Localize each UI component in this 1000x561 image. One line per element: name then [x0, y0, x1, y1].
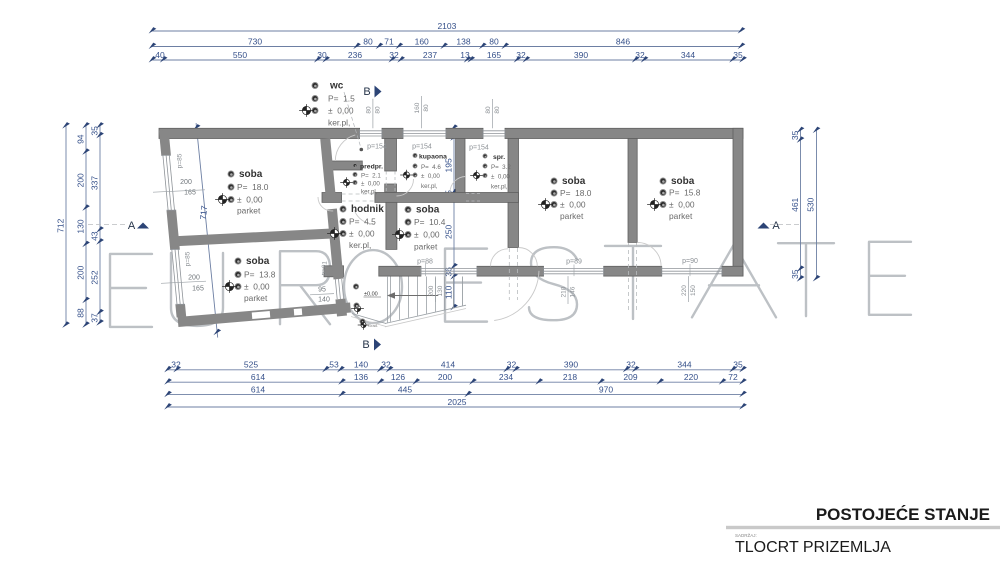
svg-text:209: 209 [623, 372, 637, 382]
svg-text:138: 138 [456, 36, 470, 46]
svg-text:43: 43 [90, 231, 100, 241]
svg-text:P= 18.0: P= 18.0 [560, 188, 592, 198]
svg-text:±0,00: ±0,00 [364, 292, 378, 298]
svg-text:200: 200 [428, 285, 435, 296]
svg-text:614: 614 [251, 384, 265, 394]
svg-text:35: 35 [90, 126, 100, 136]
svg-text:± 0,00: ± 0,00 [669, 200, 695, 210]
svg-text:32: 32 [381, 360, 391, 370]
svg-text:predpr.: predpr. [360, 164, 383, 171]
svg-text:200: 200 [180, 179, 192, 186]
svg-text:40: 40 [155, 50, 165, 60]
svg-text:p=85: p=85 [185, 251, 192, 266]
svg-text:712: 712 [56, 218, 66, 232]
svg-text:72: 72 [728, 372, 738, 382]
svg-text:p=85: p=85 [177, 153, 184, 168]
svg-text:± 0,00: ± 0,00 [244, 282, 270, 292]
svg-text:525: 525 [244, 360, 258, 370]
svg-text:445: 445 [398, 384, 412, 394]
svg-text:846: 846 [616, 36, 630, 46]
svg-text:37: 37 [90, 313, 100, 323]
svg-text:236: 236 [348, 50, 362, 60]
svg-text:P= 18.0: P= 18.0 [237, 182, 269, 192]
svg-text:110: 110 [444, 285, 454, 299]
svg-text:32: 32 [516, 50, 526, 60]
svg-text:88: 88 [76, 308, 86, 318]
svg-text:130: 130 [76, 219, 86, 233]
svg-text:80: 80 [365, 106, 372, 114]
svg-text:200: 200 [76, 173, 86, 187]
svg-text:614: 614 [251, 372, 265, 382]
svg-text:ker.pl,: ker.pl, [421, 183, 438, 190]
svg-text:P= 4.5: P= 4.5 [349, 217, 376, 227]
svg-text:± 0,00: ± 0,00 [361, 181, 380, 188]
svg-text:p=88: p=88 [417, 259, 433, 266]
svg-text:200: 200 [76, 265, 86, 279]
svg-text:30: 30 [317, 50, 327, 60]
svg-text:218: 218 [563, 372, 577, 382]
svg-text:parket: parket [669, 211, 693, 221]
svg-text:soba: soba [562, 176, 586, 187]
svg-text:550: 550 [233, 50, 247, 60]
svg-text:80: 80 [363, 36, 373, 46]
svg-text:± 0,00: ± 0,00 [414, 230, 440, 240]
svg-text:80: 80 [423, 104, 430, 112]
svg-text:730: 730 [248, 36, 262, 46]
svg-text:165: 165 [192, 286, 204, 293]
svg-text:p=90: p=90 [682, 258, 698, 265]
svg-text:35: 35 [733, 360, 743, 370]
svg-text:95: 95 [318, 287, 326, 294]
svg-text:200: 200 [188, 275, 200, 282]
svg-text:130: 130 [437, 285, 444, 296]
svg-text:220: 220 [684, 372, 698, 382]
svg-text:970: 970 [599, 384, 613, 394]
svg-text:234: 234 [499, 372, 513, 382]
svg-text:160: 160 [414, 102, 421, 113]
svg-text:P= 10.4: P= 10.4 [414, 217, 446, 227]
svg-text:32: 32 [635, 50, 645, 60]
svg-text:80: 80 [494, 106, 501, 114]
svg-text:Građ.: Građ. [368, 323, 378, 328]
svg-text:parket: parket [560, 211, 584, 221]
svg-text:71: 71 [384, 36, 394, 46]
svg-text:parket: parket [237, 206, 261, 216]
svg-text:344: 344 [677, 360, 691, 370]
svg-text:ker.pl,: ker.pl, [328, 118, 350, 128]
svg-text:32: 32 [171, 360, 181, 370]
svg-text:337: 337 [90, 176, 100, 190]
svg-text:A: A [772, 220, 780, 232]
svg-text:200: 200 [438, 372, 452, 382]
svg-text:TLOCRT PRIZEMLJA: TLOCRT PRIZEMLJA [735, 539, 891, 556]
svg-text:140: 140 [354, 360, 368, 370]
svg-text:P= 3.2: P= 3.2 [491, 164, 511, 171]
svg-text:210: 210 [561, 286, 568, 297]
svg-text:SADRŽAJ:: SADRŽAJ: [735, 531, 757, 538]
svg-text:p=154: p=154 [412, 144, 432, 151]
svg-text:150: 150 [690, 285, 697, 296]
svg-text:2025: 2025 [448, 397, 467, 407]
svg-text:hodnik: hodnik [351, 204, 384, 215]
svg-text:P= 4.6: P= 4.6 [421, 164, 441, 171]
svg-text:A: A [128, 220, 136, 232]
svg-text:p=89: p=89 [566, 259, 582, 266]
svg-text:32: 32 [507, 360, 517, 370]
svg-text:237: 237 [423, 50, 437, 60]
svg-text:390: 390 [564, 360, 578, 370]
svg-text:80: 80 [485, 106, 492, 114]
svg-text:ker.pl,: ker.pl, [361, 189, 378, 196]
svg-text:soba: soba [671, 176, 695, 187]
svg-text:35: 35 [790, 269, 800, 279]
svg-text:414: 414 [441, 360, 455, 370]
svg-text:344: 344 [681, 50, 695, 60]
svg-text:53: 53 [329, 360, 339, 370]
svg-text:wc: wc [329, 81, 344, 92]
svg-text:80: 80 [489, 36, 499, 46]
svg-text:± 0,00: ± 0,00 [328, 106, 354, 116]
svg-text:± 0,00: ± 0,00 [560, 200, 586, 210]
svg-text:461: 461 [790, 197, 800, 211]
svg-text:p=154: p=154 [469, 145, 489, 152]
svg-text:32: 32 [626, 360, 636, 370]
svg-text:717: 717 [198, 205, 209, 220]
svg-text:parket: parket [414, 242, 438, 252]
svg-text:390: 390 [574, 50, 588, 60]
svg-text:35: 35 [733, 50, 743, 60]
svg-text:ker.pl,: ker.pl, [491, 184, 508, 191]
svg-text:parket: parket [244, 293, 268, 303]
svg-text:B: B [363, 86, 370, 98]
svg-text:kupaona: kupaona [419, 154, 447, 161]
svg-text:146: 146 [570, 286, 577, 297]
svg-text:soba: soba [246, 256, 270, 267]
svg-text:13: 13 [460, 50, 470, 60]
svg-text:530: 530 [806, 197, 816, 211]
svg-text:32: 32 [389, 50, 399, 60]
svg-text:165: 165 [487, 50, 501, 60]
svg-text:35: 35 [790, 130, 800, 140]
svg-text:94: 94 [76, 134, 86, 144]
svg-text:± 0,00: ± 0,00 [237, 195, 263, 205]
svg-text:220: 220 [681, 285, 688, 296]
svg-text:± 0,00: ± 0,00 [491, 174, 510, 181]
svg-text:252: 252 [90, 270, 100, 284]
svg-text:POSTOJEĆE STANJE: POSTOJEĆE STANJE [816, 505, 990, 524]
svg-text:soba: soba [239, 169, 263, 180]
svg-text:80: 80 [374, 106, 381, 114]
svg-text:2103: 2103 [437, 21, 456, 31]
svg-text:P= 1.5: P= 1.5 [328, 94, 355, 104]
svg-text:ker.pl,: ker.pl, [349, 240, 371, 250]
svg-text:P= 13.8: P= 13.8 [244, 270, 276, 280]
svg-text:P= 2.1: P= 2.1 [361, 173, 381, 180]
svg-text:± 0,00: ± 0,00 [421, 173, 440, 180]
svg-text:136: 136 [354, 372, 368, 382]
svg-text:soba: soba [416, 205, 440, 216]
svg-text:126: 126 [391, 372, 405, 382]
svg-text:140: 140 [318, 297, 330, 304]
svg-text:spr.: spr. [493, 154, 505, 161]
svg-text:± 0,00: ± 0,00 [349, 229, 375, 239]
svg-text:B: B [362, 339, 369, 351]
svg-text:P= 15.8: P= 15.8 [669, 188, 701, 198]
svg-text:p=154: p=154 [367, 144, 387, 151]
svg-text:160: 160 [415, 36, 429, 46]
